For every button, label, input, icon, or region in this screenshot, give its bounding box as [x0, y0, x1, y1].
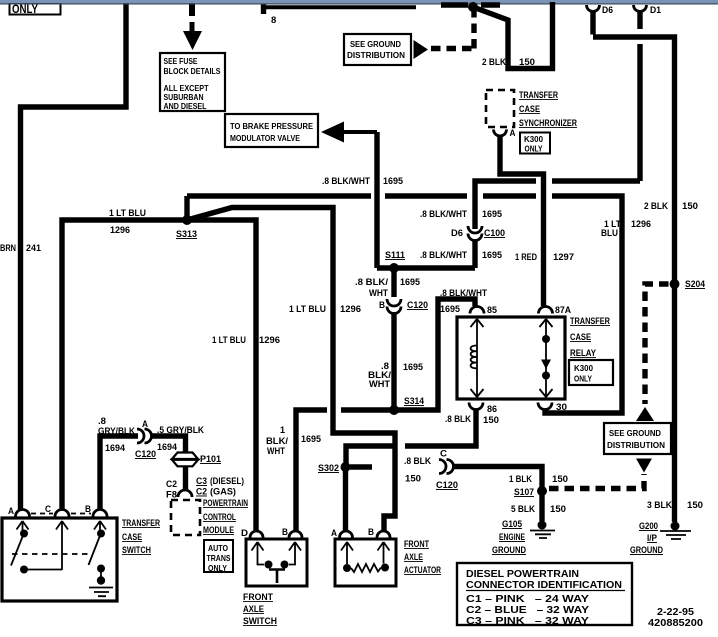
box: SEE GROUND DISTRIBUTION (bottom right): [604, 423, 671, 454]
svg-text:150: 150: [550, 504, 566, 515]
wire: D1 .8 BLK/WHT 1695 to C100: [420, 11, 640, 268]
svg-text:RELAY: RELAY: [570, 348, 596, 358]
svg-text:1296: 1296: [631, 219, 651, 230]
svg-text:C: C: [45, 504, 52, 514]
svg-text:I/P: I/P: [647, 533, 658, 544]
actuator pin A: [331, 528, 353, 538]
wire: 1 LT BLU 1296 from S313 to relay pin 30: [187, 196, 651, 413]
svg-text:SWITCH: SWITCH: [122, 545, 151, 555]
svg-text:1695: 1695: [301, 434, 322, 445]
svg-text:3 BLK: 3 BLK: [647, 500, 672, 511]
svg-text:S107: S107: [514, 487, 534, 498]
svg-text:ONLY: ONLY: [525, 144, 543, 154]
svg-text:ACTUATOR: ACTUATOR: [404, 565, 441, 575]
svg-text:30: 30: [556, 402, 567, 413]
FRONT AXLE ACTUATOR box: [335, 539, 441, 586]
svg-text:1296: 1296: [340, 304, 361, 315]
svg-text:A: A: [8, 506, 15, 516]
relay pin 85: [470, 305, 498, 316]
K300 ONLY note box (cut off, top-left): [10, 3, 61, 17]
svg-text:P101: P101: [200, 454, 222, 465]
svg-text:C120: C120: [436, 480, 458, 491]
svg-text:1: 1: [280, 425, 286, 436]
wire: relay 86 to S302 (.8 BLK 150): [346, 409, 476, 465]
relay pin 87A: [539, 305, 572, 316]
svg-text:D6: D6: [451, 228, 463, 239]
svg-text:1 LT BLU: 1 LT BLU: [212, 335, 246, 346]
svg-text:86: 86: [487, 404, 497, 415]
svg-text:ONLY: ONLY: [208, 563, 227, 573]
splice S314: [389, 396, 425, 415]
wire: fuse-block feed with down arrow: [183, 2, 202, 50]
svg-text:C100: C100: [484, 228, 505, 239]
splice S111: [385, 250, 406, 273]
wire: 1 LT BLU 1296 horizontal with S313, pins C and D: [62, 208, 280, 531]
switch pin C: [45, 504, 69, 517]
svg-text:1694: 1694: [157, 442, 178, 453]
splice S313: [176, 215, 197, 240]
wire: 2 BLK 150 top U: [473, 2, 553, 69]
svg-text:FRONT: FRONT: [404, 539, 430, 549]
splice S302: [318, 462, 351, 474]
svg-text:241: 241: [26, 243, 42, 254]
svg-text:C120: C120: [135, 449, 156, 460]
svg-text:1 RED: 1 RED: [515, 252, 537, 263]
svg-text:TRANSFER: TRANSFER: [570, 316, 611, 326]
ground G200: [630, 521, 691, 556]
svg-text:BLU: BLU: [601, 228, 618, 239]
svg-text:.8 BLK: .8 BLK: [445, 414, 471, 425]
svg-text:CASE: CASE: [570, 332, 591, 342]
svg-text:.8 BLK/WHT: .8 BLK/WHT: [440, 288, 487, 299]
svg-text:ONLY: ONLY: [574, 374, 592, 384]
dashed wire: S204 to ground distribution: [645, 284, 669, 404]
splice S107: [514, 486, 547, 498]
svg-text:GRY/BLK: GRY/BLK: [98, 426, 135, 437]
svg-text:K300: K300: [574, 363, 593, 373]
box: AUTO TRANS ONLY: [204, 540, 233, 573]
arrow into lower ground distribution box (top side): [636, 407, 654, 421]
svg-text:8: 8: [271, 15, 276, 26]
svg-text:WHT: WHT: [369, 379, 390, 390]
svg-text:1695: 1695: [403, 362, 424, 373]
svg-text:C2: C2: [196, 487, 207, 498]
svg-text:DISTRIBUTION: DISTRIBUTION: [347, 50, 405, 60]
svg-text:.8 BLK/: .8 BLK/: [355, 277, 388, 288]
svg-text:MODULATOR VALVE: MODULATOR VALVE: [230, 133, 300, 143]
svg-text:1296: 1296: [110, 225, 130, 236]
wire: S302 to front axle actuator pin A: [343, 467, 348, 531]
wire: top bus "8": [261, 4, 416, 26]
svg-text:B: B: [85, 504, 91, 514]
wire: BRN 241 run to switch pin A: [0, 0, 126, 510]
svg-text:1 LT BLU: 1 LT BLU: [109, 208, 146, 219]
arrow into lower ground distribution box (bottom side): [636, 459, 652, 473]
actuator internals: motor resistor: [341, 542, 390, 572]
svg-text:ONLY: ONLY: [12, 4, 38, 16]
wire: .8 GRY/BLK 1694 switch pin B to C120 A: [98, 416, 204, 509]
box: K300 ONLY (synchronizer): [520, 133, 550, 154]
svg-text:87A: 87A: [555, 305, 571, 316]
relay K300: TRANSFER CASE RELAY box: [457, 316, 611, 399]
svg-text:(DIESEL): (DIESEL): [210, 476, 244, 487]
svg-text:G200: G200: [639, 521, 658, 532]
connector D1 (top): [634, 5, 662, 16]
svg-text:TRANS: TRANS: [207, 553, 231, 563]
svg-text:TRANSFER: TRANSFER: [122, 518, 161, 528]
switch pin A: [8, 506, 30, 517]
relay coil (85-86 leg): [471, 319, 484, 398]
svg-text:1 LT BLU: 1 LT BLU: [289, 304, 326, 315]
svg-text:C3: C3: [196, 476, 207, 487]
dashed wire: ground distribution to top splice: [431, 2, 500, 49]
wire: S302 to C120 C stub: [350, 449, 458, 492]
box: TO BRAKE PRESSURE MODULATOR VALVE: [225, 114, 344, 147]
svg-text:SEE GROUND: SEE GROUND: [609, 428, 661, 438]
svg-text:150: 150: [552, 474, 568, 485]
connector C100 (D6): [451, 226, 505, 241]
svg-text:BRN: BRN: [0, 243, 16, 254]
svg-text:SWITCH: SWITCH: [243, 616, 277, 626]
switch internals: [11, 521, 113, 596]
svg-text:1695: 1695: [482, 209, 503, 220]
svg-text:DISTRIBUTION: DISTRIBUTION: [607, 440, 665, 450]
svg-text:POWERTRAIN: POWERTRAIN: [203, 498, 248, 508]
svg-text:.8 BLK/WHT: .8 BLK/WHT: [322, 176, 370, 187]
svg-text:5 BLK: 5 BLK: [511, 504, 535, 515]
front axle switch pin B: [282, 527, 302, 538]
blue header bar: [0, 0, 718, 3]
front axle switch pin D: [241, 528, 263, 538]
svg-text:C3 – PINK – 32 WAY: C3 – PINK – 32 WAY: [466, 616, 589, 627]
front axle switch internals: [252, 542, 302, 583]
wire: 1 LT BLU 1296 from S313 to front axle actuator pin B: [187, 208, 395, 532]
svg-text:GROUND: GROUND: [630, 545, 663, 556]
svg-text:S111: S111: [385, 250, 406, 261]
svg-text:2 BLK: 2 BLK: [644, 201, 668, 212]
splice S204: [670, 279, 706, 290]
wire: S111 to S314 via C120 B: [355, 268, 424, 410]
svg-text:SYNCHRONIZER: SYNCHRONIZER: [519, 118, 578, 128]
svg-text:S302: S302: [318, 463, 339, 474]
svg-text:CONTROL: CONTROL: [203, 512, 236, 522]
relay pin 86: [445, 403, 499, 427]
svg-text:150: 150: [682, 201, 698, 212]
svg-text:B: B: [282, 527, 288, 537]
svg-text:GROUND: GROUND: [492, 545, 526, 556]
svg-text:AND DIESEL: AND DIESEL: [164, 101, 207, 111]
svg-text:1296: 1296: [259, 335, 280, 346]
svg-text:CONNECTOR IDENTIFICATION: CONNECTOR IDENTIFICATION: [466, 580, 622, 591]
svg-text:1297: 1297: [553, 252, 574, 263]
dashed wire: S107 to ground distribution (right): [549, 474, 644, 489]
wire: P101 to PCM pin F8: [166, 466, 244, 501]
svg-text:C2 – BLUE – 32 WAY: C2 – BLUE – 32 WAY: [466, 605, 589, 616]
svg-text:C: C: [440, 449, 447, 460]
dashed box: TRANSFER CASE SYNCHRONIZER: [486, 90, 578, 128]
svg-text:A: A: [510, 128, 517, 138]
svg-text:CASE: CASE: [122, 532, 142, 542]
component P101: [172, 453, 222, 467]
box: DIESEL POWERTRAIN CONNECTOR IDENTIFICATION: [457, 563, 632, 627]
svg-text:150: 150: [519, 57, 535, 68]
svg-text:150: 150: [687, 500, 703, 511]
PCM pin F8: [178, 490, 192, 497]
svg-text:S314: S314: [404, 396, 425, 407]
svg-text:CASE: CASE: [519, 104, 540, 114]
svg-text:.8 BLK/WHT: .8 BLK/WHT: [420, 250, 467, 261]
svg-text:C120: C120: [407, 300, 428, 311]
svg-text:SEE FUSE: SEE FUSE: [164, 56, 198, 66]
connector D6 (top): [587, 5, 614, 16]
svg-text:.8 BLK: .8 BLK: [404, 456, 431, 467]
svg-text:1695: 1695: [383, 176, 404, 187]
connector face dashes: [31, 513, 91, 515]
svg-text:WHT: WHT: [267, 446, 285, 457]
svg-text:420885200: 420885200: [648, 618, 704, 629]
dashed box: POWERTRAIN CONTROL MODULE: [171, 498, 248, 535]
svg-text:B: B: [368, 527, 374, 537]
svg-text:85: 85: [487, 305, 498, 316]
wire: S314 to relay pin 85 (.8 BLK/WHT 1695): [341, 288, 487, 410]
svg-text:AXLE: AXLE: [404, 552, 423, 562]
connector C120 A: [137, 429, 152, 443]
svg-text:D: D: [241, 528, 248, 538]
TRANSFER CASE SWITCH box: [2, 518, 161, 601]
box: SEE FUSE BLOCK DETAILS: [160, 53, 225, 111]
svg-text:1695: 1695: [440, 304, 461, 315]
svg-text:WHT: WHT: [369, 288, 388, 299]
box: K300 ONLY (relay): [569, 360, 613, 385]
svg-text:B: B: [379, 300, 385, 311]
svg-text:C2: C2: [166, 479, 177, 490]
ground G105: [492, 519, 555, 556]
svg-text:(GAS): (GAS): [210, 487, 236, 498]
svg-text:D6: D6: [602, 5, 613, 16]
relay contact (87A-30 leg): [540, 319, 553, 398]
actuator pin B: [368, 527, 390, 538]
svg-text:2-22-95: 2-22-95: [657, 607, 695, 618]
svg-text:150: 150: [483, 415, 499, 426]
connector C120 C: [439, 460, 454, 474]
switch pin B: [85, 504, 107, 517]
svg-text:1 BLK: 1 BLK: [509, 474, 532, 485]
svg-text:1695: 1695: [482, 250, 503, 261]
svg-text:G105: G105: [502, 519, 523, 530]
svg-text:A: A: [331, 528, 338, 538]
svg-text:MODULE: MODULE: [203, 525, 234, 535]
svg-text:TRANSFER: TRANSFER: [519, 90, 559, 100]
svg-text:S313: S313: [176, 229, 197, 240]
svg-text:A: A: [142, 419, 149, 429]
wire: C120 C to S107 and G105 (1 BLK / 5 BLK 150): [453, 467, 568, 522]
svg-text:1694: 1694: [105, 443, 126, 454]
svg-text:ENGINE: ENGINE: [499, 532, 525, 543]
svg-text:AUTO: AUTO: [208, 543, 228, 553]
svg-text:150: 150: [405, 474, 421, 485]
svg-text:D1: D1: [650, 5, 662, 16]
svg-text:DIESEL POWERTRAIN: DIESEL POWERTRAIN: [466, 569, 579, 580]
svg-text:C1 – PINK – 24 WAY: C1 – PINK – 24 WAY: [466, 594, 589, 605]
svg-text:2 BLK: 2 BLK: [482, 57, 506, 68]
svg-text:.8 BLK/WHT: .8 BLK/WHT: [420, 209, 467, 220]
connector C120 B: [379, 299, 428, 314]
svg-text:SEE GROUND: SEE GROUND: [350, 39, 401, 49]
svg-text:.5 GRY/BLK: .5 GRY/BLK: [157, 425, 204, 436]
svg-text:K300: K300: [524, 134, 543, 144]
svg-text:AXLE: AXLE: [243, 604, 264, 614]
box: SEE GROUND DISTRIBUTION (top): [344, 34, 428, 65]
svg-text:BLOCK DETAILS: BLOCK DETAILS: [164, 66, 221, 76]
FRONT AXLE SWITCH box: [243, 539, 307, 626]
date / document number: [648, 607, 704, 629]
svg-text:FRONT: FRONT: [243, 592, 274, 602]
wire: D6 2 BLK 150 to G200 ground: [593, 11, 703, 522]
wire: 1 RED 1297 synchronizer to relay 87A: [500, 136, 574, 306]
svg-text:1695: 1695: [400, 277, 421, 288]
svg-text:TO BRAKE PRESSURE: TO BRAKE PRESSURE: [230, 121, 313, 131]
wire: S314 to front axle switch pin B (1 BLK/WHT 1695): [266, 410, 327, 531]
relay pin 30: [538, 402, 567, 413]
wire: .8 BLK/WHT 1695 brake modulator to S111: [322, 132, 475, 268]
synchronizer pin A: [494, 128, 517, 138]
svg-text:S204: S204: [685, 279, 706, 290]
